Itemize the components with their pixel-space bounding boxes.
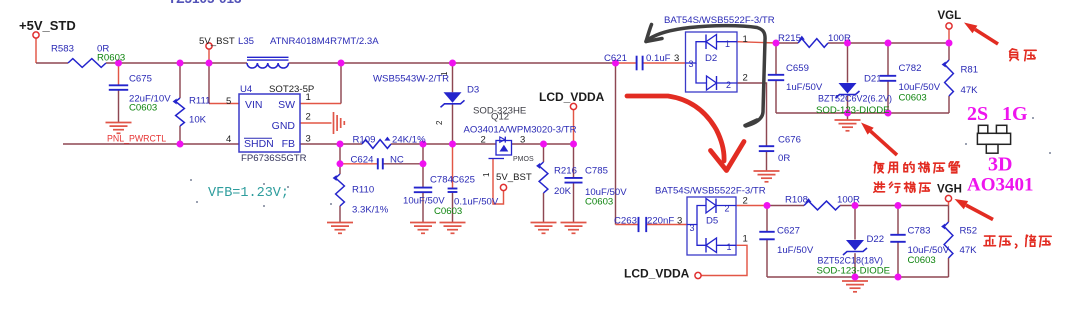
node C624 left [337,160,344,167]
port 5V_BST at Q12 [500,184,506,190]
wire to U4 VIN [208,63,210,104]
hand-drawn black scribble around D2 [646,25,765,127]
port LCD_VDDA bottom [695,272,701,278]
wire C675 top lead [118,63,120,85]
svg-text:3: 3 [520,135,525,146]
wire C659 top lead [775,43,777,74]
svg-text:D21: D21 [864,74,882,85]
node C784/FB rail [420,141,427,148]
svg-text:3.3K/1%: 3.3K/1% [352,205,389,216]
annotation chinese shiyongde wenyaguan char 1 [874,162,883,173]
wire VGH rail A [767,205,804,207]
wire C627 top lead [766,206,768,232]
wire C625 top lead [452,144,454,188]
port LCD_VDDA top [570,103,576,109]
wire D2 pin1 stub [737,42,776,43]
wire R111 bottom lead [179,126,181,144]
hand-drawn red marker arrow curve [627,96,744,171]
svg-text:100R: 100R [837,195,860,206]
wire VGH rail B [840,205,949,207]
wire C263 to D5 pin3 [647,224,687,226]
wire VGH terminal drop [948,202,950,206]
wire C624 left lead [340,163,377,165]
svg-text:2S: 2S [967,103,988,125]
wire LCD_VDDA drop [573,110,575,144]
svg-text:C624: C624 [351,155,375,166]
ground under C784 [410,223,436,234]
wire D21 top lead [847,43,849,83]
svg-text:0.1uF: 0.1uF [646,53,671,64]
svg-text:C785: C785 [585,166,608,177]
node R216 [540,141,547,148]
wire Q12 gate to 5V_BST [493,159,504,205]
svg-text:BAT54S/WSB5522F-3/TR: BAT54S/WSB5522F-3/TR [655,186,766,197]
wire C784 to ground [422,193,424,222]
wire U4 pin5 stub [209,103,239,105]
node LCD_VDDA/C785 [570,141,577,148]
resistor R111 [173,98,185,126]
wire long riser to C263 [615,63,617,225]
diode D2 BAT54S box [686,32,738,92]
wire top rail segment B [106,62,247,64]
svg-text:D5: D5 [706,216,718,227]
svg-text:1: 1 [743,234,748,245]
capacitor C659 [768,75,784,80]
svg-text:R216: R216 [554,166,577,177]
svg-text:10uF/50V: 10uF/50V [403,195,445,206]
ground under C675 [106,123,132,134]
svg-text:2: 2 [725,204,730,214]
port VGL [946,23,952,29]
svg-text:3: 3 [690,223,695,233]
wire D21 bottom lead [847,96,849,113]
diode D3 (zener) [441,92,465,107]
svg-text:R215: R215 [778,33,801,44]
annotation chinese bei (doubler) [1026,235,1036,247]
svg-text:D3: D3 [467,85,479,96]
svg-text:LCD_VDDA: LCD_VDDA [624,267,690,281]
node C783 bottom [895,274,902,281]
svg-text:VGL: VGL [938,10,962,22]
svg-text:Q12: Q12 [491,112,509,123]
svg-text:1: 1 [727,242,732,252]
svg-text:0R: 0R [778,153,790,164]
annotation chinese jinxing wenya char 1 [874,182,885,192]
red arrow to D21 ground [861,123,897,156]
resistor R108 [804,198,840,210]
wire C785 to ground [573,183,575,222]
svg-text:1uF/50V: 1uF/50V [777,245,814,256]
wire 5V_BST terminal drop [208,49,210,63]
SOT-23 package sketch [977,125,1010,153]
node C675/top rail [115,60,122,67]
capacitor C624 [378,158,383,169]
svg-text:10uF/50V: 10uF/50V [899,82,941,93]
svg-text:220nF: 220nF [647,216,674,227]
wire VGL bottom rail [776,112,949,114]
node D3 cathode [449,141,456,148]
wire R81 top lead [948,43,950,60]
svg-text:1: 1 [482,172,491,177]
ground under C785 [561,223,587,234]
svg-text:C784: C784 [430,174,454,185]
wire FB rail segment A [300,143,362,145]
resistor R110 [333,174,345,206]
wire C782 bottom lead [887,81,889,113]
node C621 branch [612,60,619,67]
resistor R583 [68,59,106,68]
wire VGL rail A [776,42,798,44]
svg-text:D22: D22 [867,234,885,245]
diode D22 (zener) [843,240,867,255]
wire R52 top lead [948,206,950,223]
node D21 bottom [844,110,851,117]
wire R110 top lead [339,164,341,174]
svg-text:C263: C263 [614,216,637,227]
svg-text:C621: C621 [604,53,627,64]
annotation chinese zheng (positive) [984,236,995,246]
wire R110 branch [339,144,341,164]
transistor Q12 PMOS [489,137,512,159]
node C624 right [420,160,427,167]
annotation chinese jinxing wenya char 3 [904,182,915,192]
wire top rail segment A [36,62,68,64]
svg-text:2: 2 [726,80,731,90]
capacitor C783 [890,235,905,242]
svg-text:SOD-123-DIODE: SOD-123-DIODE [816,105,890,116]
annotation chinese shiyongde wenyaguan char 5 [934,163,945,173]
svg-text:BZT52C18(18V): BZT52C18(18V) [818,256,884,266]
wire D2 pin2 to C676 [737,83,767,146]
annotation chinese ya (voltage) 3 [1039,236,1051,246]
ground under C625 [440,223,466,234]
svg-text:3D: 3D [988,154,1012,176]
capacitor C785 [565,178,583,183]
svg-text:PMOS: PMOS [513,156,534,163]
wire top rail segment C [289,62,616,64]
wire C659 bottom lead [775,81,777,113]
svg-text:3: 3 [674,53,679,64]
svg-text:AO3401: AO3401 [967,175,1034,196]
svg-text:R109: R109 [353,135,376,146]
wire SW riser [340,63,342,104]
capacitor C263 [639,217,647,232]
svg-text:47K: 47K [961,85,979,96]
diode D21 (zener) [836,83,860,98]
wire C627 bottom lead [766,240,768,277]
capacitor C782 [880,76,896,81]
capacitor C621 [637,56,643,71]
node C783/VGH rail [895,202,902,209]
wire R110 to ground [339,206,341,222]
annotation chinese fu (negative) [1010,49,1019,61]
port +5V_STD [33,32,39,38]
ground under R110 [327,223,353,234]
wire VGL rail B [828,42,949,44]
svg-text:2: 2 [435,120,444,125]
ground under D21 [835,120,861,131]
svg-text:C0603: C0603 [899,93,927,104]
wire C784 top lead [422,144,424,187]
svg-text:R81: R81 [961,65,979,76]
wire C675 to ground [118,90,120,122]
wire U4 SW pin1 stub [300,103,341,105]
wire C625 to ground [452,192,454,222]
svg-text:5: 5 [226,96,231,107]
svg-text:3: 3 [689,59,694,69]
capacitor C676 [759,146,774,151]
svg-text:R108: R108 [785,195,808,206]
inductor L35 [247,57,289,68]
svg-text:5V_BST: 5V_BST [496,172,532,183]
wire R111 top lead [179,63,181,98]
wire R216 to ground [543,193,545,222]
annotation chinese shiyongde wenyaguan char 6 [949,162,959,173]
diode D5 BAT54S box [687,197,736,255]
svg-text:GND: GND [272,120,296,132]
svg-text:20K: 20K [554,186,572,197]
wire D22 bottom lead [854,253,856,277]
svg-text:3: 3 [677,216,682,227]
wire R216 top lead [543,144,545,162]
svg-text:LCD_VDDA: LCD_VDDA [539,90,605,104]
node D22 bottom [852,274,859,281]
svg-text:C627: C627 [777,226,800,237]
resistor R216 [536,162,548,193]
wire C785 top lead [573,144,575,177]
wire C624 right lead [383,163,423,165]
node C782 bottom [885,110,892,117]
wire D3 cathode lead [452,105,454,145]
resistor R52 [941,222,953,258]
svg-text:VIN: VIN [245,99,263,111]
wire PNL_PWRCTL to SHDN [63,143,239,145]
svg-text:R110: R110 [352,185,374,196]
node FB/R110 [337,141,344,148]
wire to ground stub [847,113,849,120]
svg-text:100R: 100R [828,33,851,44]
node C782/VGL rail [885,40,892,47]
node D22/VGH rail [852,202,859,209]
node R111/PNL [177,141,184,148]
svg-text:FP6736S5GTR: FP6736S5GTR [241,153,307,164]
ground under R216 [531,223,557,234]
svg-text:2: 2 [306,112,311,123]
wire C621 left lead [616,62,636,64]
svg-text:C783: C783 [908,226,931,237]
svg-text:2: 2 [481,135,486,146]
svg-text:VFB=1.23V;: VFB=1.23V; [208,186,289,201]
node VGL terminal [946,40,953,47]
svg-text:47K: 47K [960,245,978,256]
svg-text:R52: R52 [960,226,978,237]
svg-text:FB: FB [282,138,295,150]
wire R52 bottom lead [948,258,950,277]
annotation chinese shiyongde wenyaguan char 3 [904,162,914,172]
node C627/VGH rail [764,202,771,209]
svg-text:L35: L35 [238,36,254,47]
node SW riser [338,60,345,67]
svg-text:WSB5543W-2/TR: WSB5543W-2/TR [373,74,449,85]
svg-text:C0603: C0603 [585,197,613,208]
svg-text:NC: NC [390,155,404,166]
svg-text:3: 3 [306,134,311,145]
node D3/top rail [449,60,456,67]
annotation chinese jinxing wenya char 2 [889,182,900,192]
port 5V_BST top [206,43,212,49]
wire C783 top lead [897,206,899,235]
wire +5V_STD terminal drop [35,38,37,63]
svg-text:1uF/50V: 1uF/50V [786,82,823,93]
wire VGL terminal drop [948,29,950,43]
wire D5 pin2 stub [736,205,767,207]
wire to ground stub 2 [854,277,856,281]
red arrow to VGL [964,23,998,45]
node D21/VGL rail [844,40,851,47]
wire C782 top lead [887,43,889,75]
svg-text:10K: 10K [189,115,207,126]
svg-text:4: 4 [226,134,231,145]
op-amp U4 FP6736 regulator box [239,94,300,152]
capacitor C675 [109,85,128,90]
svg-text:R0603: R0603 [97,53,125,64]
svg-text:C0603: C0603 [129,103,157,114]
annotation chinese comma [1016,244,1017,248]
svg-text:C659: C659 [786,63,809,74]
svg-text:1G: 1G [1002,103,1028,125]
wire U4 GND pin2 stub [300,122,332,124]
wire FB rail segment B [391,143,496,145]
capacitor C784 [414,188,432,193]
wire D22 top lead [854,206,856,240]
resistor R109 [362,137,391,149]
svg-text:5V_BST: 5V_BST [199,36,235,47]
ground under D22 [842,281,868,292]
svg-text:1: 1 [743,34,748,45]
wire D5 pin1 to LCD_VDDA [701,245,747,275]
svg-text:C676: C676 [778,135,801,146]
annotation chinese shiyongde wenyaguan char 4 [919,162,930,172]
annotation chinese jinxing wenya char 4 [919,183,930,193]
wire C783 bottom lead [897,242,899,277]
svg-text:BZT52C6V2(6.2V): BZT52C6V2(6.2V) [818,94,892,104]
svg-text:C782: C782 [899,63,922,74]
wire R81 bottom lead [948,96,950,113]
svg-text:C0603: C0603 [908,255,936,266]
node C659/VGL rail [773,40,780,47]
svg-text:ATNR4018M4R7MT/2.3A: ATNR4018M4R7MT/2.3A [270,36,379,47]
red arrow to VGH [955,199,994,220]
wire VGH bottom rail [767,276,949,278]
svg-text:C0603: C0603 [434,206,462,217]
port VGH [945,195,951,201]
capacitor C625 [448,189,458,193]
node R111/top rail [177,60,184,67]
resistor R215 [798,36,828,48]
wire C263 left lead [616,224,638,226]
svg-text:+5V_STD: +5V_STD [19,18,76,33]
svg-text:VGH: VGH [937,184,962,196]
node 5V_BST [206,60,213,67]
wire C621 to D2 pin3 [643,62,685,64]
svg-text:R111: R111 [189,96,211,107]
svg-text:TZ5105-013: TZ5105-013 [168,0,242,6]
svg-text:D2: D2 [705,53,717,64]
wire D3 anode lead [452,63,454,92]
svg-text:2: 2 [743,73,748,84]
capacitor C627 [759,232,774,240]
svg-text:PNL_PWRCTL: PNL_PWRCTL [107,134,166,144]
resistor R81 [942,60,954,96]
annotation chinese ya (voltage) [1024,50,1036,60]
svg-text:C625: C625 [452,174,475,185]
svg-text:1: 1 [440,71,449,76]
svg-text:24K/1%: 24K/1% [392,135,426,146]
svg-text:R583: R583 [51,44,74,55]
ground at U4 GND pin [334,112,345,134]
svg-text:C675: C675 [129,74,152,85]
svg-text:1: 1 [725,39,730,49]
wire FB rail segment C [512,143,574,145]
decorative specks (scan noise) [190,117,1051,207]
svg-text:2: 2 [743,196,748,207]
svg-text:U4: U4 [240,84,253,95]
svg-text:SW: SW [278,99,295,111]
svg-text:1: 1 [306,92,311,103]
svg-text:SHDN: SHDN [244,138,274,150]
svg-text:SOD-123-DIODE: SOD-123-DIODE [817,266,891,277]
annotation chinese ya (voltage) 2 [999,236,1011,246]
wire C676 to ground [766,152,768,171]
annotation chinese shiyongde wenyaguan char 2 [888,162,897,173]
ground under C676 [754,171,780,182]
